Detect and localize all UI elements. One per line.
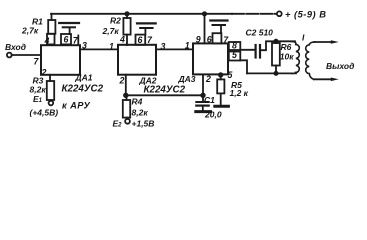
wire R6 stub top: [275, 41, 277, 43]
svg-text:ДА1: ДА1: [75, 73, 93, 83]
svg-text:2,7к: 2,7к: [21, 26, 39, 36]
wire R4 to E2: [126, 118, 128, 119]
junction on rail for DA3 pin9: [203, 12, 206, 15]
svg-text:Вход: Вход: [5, 42, 26, 52]
wire C1 to ground: [202, 107, 204, 111]
wire DA3 pin2 down: [202, 74, 204, 95]
wire R5 to ground: [220, 93, 222, 104]
capacitor plates above pins 6-7 DA2: [137, 22, 156, 24]
op-amp U3 DA3 box: [193, 43, 228, 74]
wire down to C1: [202, 95, 204, 101]
svg-text:2: 2: [119, 76, 125, 86]
svg-text:R6: R6: [281, 42, 292, 52]
wire top supply rail: [51, 13, 232, 15]
svg-text:R4: R4: [132, 97, 143, 107]
wire DA1 pin2 down: [49, 75, 51, 81]
resistor R6: [272, 43, 280, 66]
wire DA3 bottom pin5 to R5: [220, 75, 222, 80]
resistor R1: [48, 20, 55, 34]
svg-text:7: 7: [34, 57, 40, 67]
svg-text:1: 1: [109, 42, 114, 52]
ground R5: [215, 105, 229, 108]
svg-text:3: 3: [161, 42, 166, 52]
op-amp U2 DA2 box: [118, 45, 156, 75]
svg-text:+ (5-9) В: + (5-9) В: [285, 10, 326, 20]
wire rail dashed segment: [232, 13, 277, 15]
wire AGC line to C1 node: [126, 94, 203, 96]
svg-text:С1: С1: [204, 95, 215, 105]
node AGC junction dot: [124, 94, 128, 98]
arrow bottom output: [331, 78, 339, 82]
pin 6 box DA2: [136, 35, 146, 45]
wire R1 drop from rail: [51, 14, 53, 20]
svg-text:5: 5: [232, 50, 237, 60]
svg-text:+1,5В: +1,5В: [132, 119, 155, 129]
wire DA2 pin3 to DA3 pin1: [156, 48, 193, 50]
svg-text:(+4,5В): (+4,5В): [30, 108, 59, 118]
svg-text:2: 2: [41, 68, 47, 78]
junction dot R6 bottom: [274, 72, 277, 75]
wire rail to DA3 pin9: [204, 14, 206, 44]
svg-text:20,0: 20,0: [204, 110, 222, 120]
arrow top output: [331, 40, 339, 44]
svg-text:Выход: Выход: [326, 61, 354, 71]
terminal E1: [49, 101, 54, 106]
pin 6 box DA3: [213, 33, 222, 43]
junction on rail for R2: [125, 12, 128, 15]
svg-text:1: 1: [185, 41, 190, 51]
capacitor C1 plates: [196, 101, 208, 103]
capacitor plates above pins 6-7 DA1: [59, 22, 79, 24]
wire input to DA1 pin 7: [12, 54, 41, 56]
op-amp U1 DA1 box: [41, 45, 80, 75]
svg-text:10к: 10к: [280, 52, 294, 62]
svg-text:I: I: [302, 33, 305, 43]
wire R2 drop: [126, 14, 128, 18]
svg-text:к АРУ: к АРУ: [62, 101, 90, 111]
wire R2 to DA2 pin4: [126, 35, 128, 45]
svg-text:3: 3: [82, 41, 87, 51]
wire DA2 pin2 down to AGC node: [125, 75, 127, 96]
svg-text:2,7к: 2,7к: [102, 26, 120, 36]
wire DA1 pin3 to DA2 pin1: [80, 48, 118, 50]
input terminal: [7, 53, 12, 58]
junction dot R6 top: [274, 40, 277, 43]
svg-text:8,2к: 8,2к: [30, 85, 47, 95]
svg-text:1,2 к: 1,2 к: [230, 88, 249, 98]
resistor R3: [47, 81, 54, 100]
svg-text:R2: R2: [110, 16, 121, 26]
terminal E2: [125, 119, 130, 124]
capacitor plates above pins 6-7 DA3: [210, 19, 227, 21]
wire bottom rail: [247, 72, 296, 74]
transformer primary winding I: [291, 41, 300, 73]
ground C1: [196, 110, 211, 113]
pin 7 tick DA1: [77, 36, 79, 45]
svg-text:К224УС2: К224УС2: [144, 85, 186, 96]
transformer secondary winding: [306, 42, 315, 79]
wire R6 stub bottom: [275, 66, 277, 74]
svg-text:К224УС2: К224УС2: [62, 84, 104, 95]
pin 6 box DA1: [61, 34, 71, 44]
svg-text:9: 9: [196, 35, 201, 45]
pin 5 box DA3: [229, 52, 241, 61]
junction dot DA3 pin5 bottom: [219, 73, 223, 77]
svg-text:ДА3: ДА3: [178, 74, 196, 84]
svg-text:Е1: Е1: [33, 94, 43, 104]
resistor R5: [217, 79, 224, 93]
svg-text:6: 6: [207, 35, 212, 45]
svg-text:Е2: Е2: [113, 119, 123, 129]
wire R4 stub top: [126, 95, 128, 100]
svg-text:С2 510: С2 510: [246, 27, 274, 37]
svg-text:8: 8: [232, 41, 237, 51]
pin 8 box DA3: [229, 42, 241, 50]
capacitor C2: [255, 45, 257, 58]
resistor R2: [123, 18, 130, 35]
svg-text:2: 2: [205, 74, 211, 84]
wire DA3 pin8 to C2: [240, 49, 254, 51]
svg-text:7: 7: [147, 35, 153, 45]
terminal +5-9V: [277, 11, 282, 16]
wire secondary top output: [314, 41, 332, 43]
svg-text:6: 6: [138, 35, 143, 45]
wire C2 to top node: [261, 41, 295, 50]
pin 4 box DA1: [47, 34, 55, 45]
junction dot C1 node: [201, 94, 205, 98]
svg-text:4: 4: [44, 36, 50, 46]
svg-text:5: 5: [228, 70, 233, 80]
wire R3 to E1: [50, 99, 52, 102]
wire DA3 pin5 down to bottom rail: [240, 60, 247, 73]
svg-text:4: 4: [119, 35, 125, 45]
wire secondary bottom output: [314, 78, 332, 80]
svg-text:8,2к: 8,2к: [132, 107, 149, 117]
svg-text:6: 6: [64, 35, 69, 45]
resistor R4: [123, 100, 130, 118]
